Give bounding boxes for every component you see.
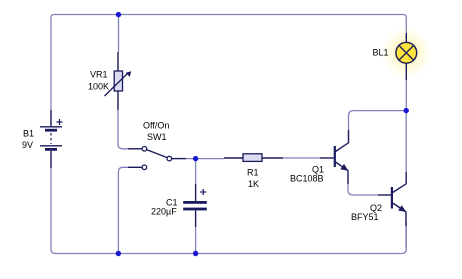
VR1 arrowhead bbox=[126, 71, 132, 77]
VR1 arrow bbox=[105, 74, 128, 97]
battery cell 1 short plate bbox=[45, 129, 57, 132]
SW1 upper throw contact circle bbox=[142, 147, 147, 152]
svg-text:B1: B1 bbox=[23, 129, 34, 139]
wire VR1 bottom to switch upper throw bbox=[118, 110, 129, 149]
battery inter-cell dashed link bbox=[50, 133, 52, 144]
battery B1 bbox=[40, 110, 63, 168]
Q1 collector diagonal bbox=[336, 130, 349, 152]
node: lower throw / 0V rail junction bbox=[116, 251, 121, 256]
node: switch output / R1 / C1 junction bbox=[193, 156, 198, 161]
VR1 top pin bbox=[117, 52, 119, 71]
lamp BL1 glow halo bbox=[379, 26, 433, 80]
C1 bottom pin bbox=[195, 210, 197, 227]
svg-text:220µF: 220µF bbox=[151, 207, 177, 217]
Q1 base bar bbox=[334, 146, 336, 167]
Q1 emitter diagonal bbox=[336, 162, 349, 184]
Q2 emitter diagonal bbox=[393, 203, 406, 226]
svg-text:9V: 9V bbox=[22, 140, 33, 150]
wire node down to C1 top bbox=[195, 159, 197, 185]
svg-text:1K: 1K bbox=[248, 179, 259, 189]
battery cell 1 long plate bbox=[40, 126, 62, 128]
svg-text:BC108B: BC108B bbox=[290, 174, 324, 184]
wire C1 bottom to 0V rail bbox=[195, 227, 197, 254]
wire Q1 emitter down and right to Q2 base bbox=[348, 184, 378, 195]
BL1 bulb circle bbox=[396, 42, 417, 63]
SW1 lever bbox=[147, 150, 168, 158]
wire R1 to Q1 base bbox=[283, 157, 320, 159]
battery cell 2 long plate bbox=[40, 145, 62, 147]
wire switch lower throw to 0V rail bbox=[118, 167, 128, 253]
BL1 cross X bbox=[399, 46, 414, 61]
svg-text:VR1: VR1 bbox=[90, 70, 108, 80]
wire Q2 emitter down to 0V rail bbox=[405, 226, 407, 248]
R1 left pin bbox=[224, 157, 243, 159]
SW1 upper throw stub bbox=[128, 148, 142, 150]
C1 top pin bbox=[195, 184, 197, 201]
svg-text:BL1: BL1 bbox=[373, 48, 389, 58]
capacitor C1 bbox=[183, 184, 207, 227]
Q2 base pin bbox=[378, 194, 391, 196]
wire 0V bottom rail from battery - to Q2 emitter bbox=[51, 168, 406, 254]
battery cell 2 short plate bbox=[45, 148, 57, 151]
Q1 base pin bbox=[320, 157, 334, 159]
C1 top plate bbox=[183, 201, 207, 204]
variable resistor VR1 bbox=[105, 52, 132, 110]
wire top rail from battery + to lamp, with node stub corners bbox=[51, 15, 406, 111]
BL1 top pin bbox=[405, 33, 407, 42]
R1 body box bbox=[243, 154, 262, 162]
SW1 common stub bbox=[172, 158, 186, 160]
wire switch common to node, node to R1 bbox=[186, 158, 225, 160]
SW1 lower throw stub bbox=[128, 166, 142, 168]
node: top rail / VR1 junction bbox=[116, 12, 121, 17]
svg-text:BFY51: BFY51 bbox=[351, 212, 379, 222]
SW1 common contact circle bbox=[167, 156, 172, 161]
BL1 bottom pin bbox=[405, 63, 407, 80]
Q2 emitter arrowhead bbox=[398, 205, 406, 212]
switch SW1 bbox=[128, 147, 186, 170]
resistor R1 bbox=[224, 154, 283, 162]
transistor Q1 bbox=[320, 130, 349, 184]
node: C1 / 0V rail junction bbox=[193, 251, 198, 256]
node: lamp / Q1 / Q2 collector junction bbox=[404, 108, 409, 113]
battery bottom pin bbox=[50, 151, 52, 168]
battery top pin bbox=[50, 110, 52, 126]
Q1 emitter arrowhead bbox=[340, 164, 348, 171]
wire Q1 collector up and right to lamp node bbox=[349, 111, 407, 130]
svg-text:100K: 100K bbox=[88, 82, 109, 92]
lamp BL1 bbox=[396, 33, 417, 80]
svg-text:R1: R1 bbox=[247, 168, 259, 178]
wire lamp bottom down to node bbox=[405, 80, 407, 111]
C1 plus sign bbox=[200, 189, 206, 195]
VR1 bottom pin bbox=[117, 91, 119, 110]
Q2 base bar bbox=[391, 187, 393, 209]
battery plus sign bbox=[57, 119, 63, 125]
SW1 lower throw contact circle bbox=[142, 165, 147, 170]
wire node down to Q2 collector bbox=[405, 111, 407, 172]
R1 right pin bbox=[262, 157, 283, 159]
Q2 collector diagonal bbox=[393, 172, 407, 193]
transistor Q2 bbox=[378, 172, 406, 226]
wire VR1 branch down from top rail bbox=[118, 15, 120, 53]
VR1 body box bbox=[114, 71, 122, 91]
svg-text:SW1: SW1 bbox=[147, 132, 167, 142]
C1 bottom plate bbox=[183, 208, 207, 211]
svg-text:Off/On: Off/On bbox=[143, 121, 169, 131]
